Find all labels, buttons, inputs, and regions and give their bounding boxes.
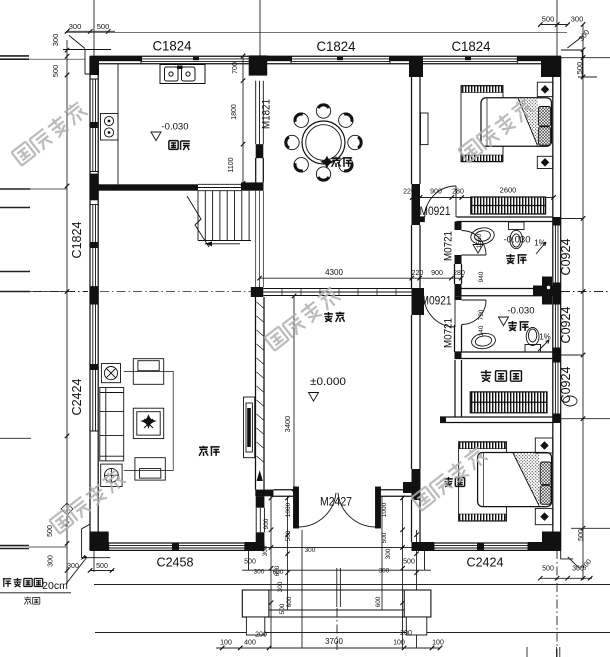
svg-text:C0924: C0924 xyxy=(558,239,573,276)
bed2 bench outline xyxy=(459,442,507,521)
window C2458 bottom xyxy=(109,543,245,550)
left wall window C2424 xyxy=(90,304,98,431)
svg-text:300: 300 xyxy=(262,545,269,556)
left wall window C1824 xyxy=(90,204,98,286)
svg-text:900: 900 xyxy=(263,518,270,529)
porch pillar right base xyxy=(406,617,427,635)
bath partition wall vertical xyxy=(455,222,462,353)
svg-text:790: 790 xyxy=(478,309,485,320)
bath2 slope arrow xyxy=(538,340,549,351)
svg-text:140: 140 xyxy=(478,325,485,336)
watermark D xyxy=(48,468,126,535)
room label dining xyxy=(332,157,353,167)
watermark A xyxy=(10,100,88,167)
left wall kitchen window xyxy=(90,79,98,172)
svg-text:280: 280 xyxy=(452,189,464,196)
kitchen dim line vertical xyxy=(242,56,244,184)
top-left parapet step xyxy=(63,36,111,75)
svg-text:1100: 1100 xyxy=(228,157,235,172)
leader line for protruding wall note xyxy=(0,555,87,593)
svg-text:500: 500 xyxy=(285,530,292,541)
level mark bath1 xyxy=(473,245,483,254)
stairs xyxy=(187,191,251,247)
top-left dim line xyxy=(67,30,115,32)
left wall stub y438 xyxy=(0,437,31,439)
dimension number labels rotated xyxy=(47,28,593,615)
svg-text:500: 500 xyxy=(381,532,388,543)
flue pier right wall xyxy=(553,283,561,304)
right exterior wall face lines xyxy=(553,56,561,550)
svg-text:M0721: M0721 xyxy=(443,318,455,348)
porch center axis marks xyxy=(337,568,341,652)
armchair bottom xyxy=(135,458,165,480)
svg-text:C1824: C1824 xyxy=(317,38,356,54)
watermark B xyxy=(457,97,535,164)
diamond marker left dim line xyxy=(61,503,73,515)
svg-text:300: 300 xyxy=(69,22,82,31)
left wall stub pair top xyxy=(0,56,29,59)
svg-text:500: 500 xyxy=(542,566,554,573)
bottom wall pier at porch left xyxy=(245,542,265,550)
svg-text:300: 300 xyxy=(385,548,392,559)
note protruding wall text xyxy=(3,578,43,587)
axis line left top xyxy=(93,0,95,56)
mid axis dash-dot left xyxy=(0,291,88,293)
svg-text:500: 500 xyxy=(578,529,585,541)
mid axis dash-dot living xyxy=(100,291,254,293)
watermark E xyxy=(410,445,488,512)
top exterior wall solid segments xyxy=(98,56,542,61)
svg-text:220: 220 xyxy=(403,189,415,196)
bath1 slope arrow xyxy=(536,242,546,254)
room label master bedroom xyxy=(444,477,465,487)
pier kitchen wall at axis xyxy=(251,287,263,297)
svg-text:1000: 1000 xyxy=(381,502,388,517)
watermark C xyxy=(263,285,341,352)
kitchen south wall xyxy=(98,182,263,190)
right ext y419 xyxy=(561,418,610,420)
svg-text:1000: 1000 xyxy=(285,502,292,517)
bottom wall pier at porch right xyxy=(412,542,435,550)
bottom dim line xyxy=(216,647,440,649)
kitchen counter edge xyxy=(117,64,119,185)
svg-text:1560: 1560 xyxy=(476,233,483,248)
left wall stub pair bottom xyxy=(0,546,29,549)
top-right parapet step xyxy=(561,36,582,77)
bottom wall face lines left part xyxy=(90,543,264,550)
left wall stub y189 xyxy=(0,188,30,190)
right wall window C0924 bath1 xyxy=(553,225,561,283)
svg-text:M2427: M2427 xyxy=(320,497,352,509)
bottom-left corner column xyxy=(90,532,109,551)
svg-text:600: 600 xyxy=(274,565,281,576)
door M0721 bath2 leaf+arc xyxy=(462,300,487,325)
room label hall xyxy=(324,312,345,322)
bottom-right parapet step xyxy=(561,550,580,568)
top-right dim line xyxy=(540,24,568,26)
svg-text:300: 300 xyxy=(571,15,584,24)
axis line right top xyxy=(556,0,558,56)
porch pillar left xyxy=(242,590,269,617)
right wall pier below cloak window xyxy=(553,414,561,423)
left wall stub y271 xyxy=(0,271,30,273)
right ext y355 xyxy=(561,354,582,356)
flue cross on right wall xyxy=(533,277,561,305)
TV wall end pointer xyxy=(257,470,263,481)
dining label flower xyxy=(320,156,334,169)
svg-text:300: 300 xyxy=(48,555,55,567)
svg-text:300: 300 xyxy=(254,569,265,576)
bedroom1 bed xyxy=(481,98,552,147)
bottom wall right part face lines xyxy=(412,543,562,550)
porch pillar right xyxy=(404,590,431,617)
svg-text:M0921: M0921 xyxy=(421,296,452,308)
top long dim line xyxy=(67,32,567,34)
dining table xyxy=(302,121,345,164)
svg-text:100: 100 xyxy=(432,640,444,647)
svg-text:500: 500 xyxy=(575,62,584,75)
svg-text:600: 600 xyxy=(375,596,382,607)
bath2 south wall xyxy=(455,352,562,359)
window C2424 bottom xyxy=(434,543,528,550)
svg-text:C1824: C1824 xyxy=(69,222,84,259)
svg-text:-0.030: -0.030 xyxy=(504,235,531,246)
svg-text:C2458: C2458 xyxy=(157,555,194,570)
svg-text:1%: 1% xyxy=(539,333,551,342)
door and window code labels xyxy=(69,99,573,509)
bottom long line 1 xyxy=(94,584,610,586)
top wall face lines xyxy=(90,56,561,64)
corridor dim line row1 xyxy=(412,197,554,199)
right wall pier above bath window xyxy=(553,217,561,225)
svg-text:500: 500 xyxy=(403,559,415,566)
svg-text:700: 700 xyxy=(232,62,239,74)
bath2 toilet xyxy=(525,328,541,353)
bed2 nightstand top xyxy=(535,438,553,453)
porch dim vertical b xyxy=(287,496,289,610)
armchair top xyxy=(133,359,163,385)
level annotation labels xyxy=(42,122,551,593)
window C0924 bath2 xyxy=(553,304,561,348)
right wall pier xyxy=(553,348,561,362)
pier left of bath door wall xyxy=(455,284,462,296)
bottom-right corner column xyxy=(542,532,561,551)
svg-text:C1824: C1824 xyxy=(452,38,491,54)
svg-text:2600: 2600 xyxy=(500,186,517,195)
svg-text:280: 280 xyxy=(453,270,465,277)
note yu tong text xyxy=(24,597,39,605)
hall north wall opening band xyxy=(263,289,411,296)
TV cabinet xyxy=(244,397,255,458)
window C1824 top kitchen band xyxy=(141,56,251,64)
column top-right corner xyxy=(541,56,561,77)
level mark bath2 xyxy=(499,317,509,326)
coffee table xyxy=(133,408,163,438)
hall dim line 3400 xyxy=(293,296,295,489)
svg-text:20cm: 20cm xyxy=(42,580,68,592)
svg-text:500: 500 xyxy=(47,525,54,537)
porch steps xyxy=(242,548,431,617)
dining/bedroom east wall xyxy=(403,77,424,542)
cloakroom south wall xyxy=(440,417,561,423)
porch pillar left base xyxy=(246,617,264,635)
left wall pier at axis xyxy=(90,287,98,304)
column top dining/bedroom xyxy=(409,56,423,77)
bedroom1 nightstand bottom xyxy=(537,156,553,168)
bottom long line 2 xyxy=(95,632,610,634)
right ext y528 xyxy=(571,527,610,529)
door M0921 bedroom1 leaf+arc xyxy=(425,186,456,217)
svg-text:500: 500 xyxy=(244,559,256,566)
mid axis dash-dot right xyxy=(561,291,610,293)
bottom-left parapet step xyxy=(82,524,111,558)
svg-text:900: 900 xyxy=(431,270,443,277)
right ext line at y58 xyxy=(561,57,610,59)
bedroom1 south wall xyxy=(420,217,553,222)
axis line left below wall xyxy=(93,550,95,572)
svg-text:300: 300 xyxy=(51,34,60,47)
svg-text:220: 220 xyxy=(412,270,424,277)
room label cloakroom xyxy=(481,370,522,382)
side table 1 xyxy=(101,364,120,383)
right ext y219 xyxy=(561,218,582,220)
bedroom1 bed bench outline xyxy=(461,86,503,162)
svg-text:3400: 3400 xyxy=(283,416,292,433)
svg-text:1%: 1% xyxy=(534,239,546,248)
level mark kitchen xyxy=(151,132,161,141)
svg-text:200: 200 xyxy=(400,630,412,637)
bedroom1 nightstand top xyxy=(537,82,553,96)
svg-text:M0721: M0721 xyxy=(443,231,455,261)
dining dim line row2 xyxy=(260,277,462,279)
svg-text:100: 100 xyxy=(220,640,232,647)
bath1 washbasin xyxy=(469,226,495,246)
porch dim vertical c xyxy=(301,530,303,648)
svg-text:3700: 3700 xyxy=(325,637,343,646)
window C1824 top dining band xyxy=(291,56,390,64)
cloakroom wardrobe xyxy=(470,392,547,413)
room label bath1 xyxy=(506,254,527,264)
level mark hall xyxy=(309,393,319,402)
kitchen/dining wall xyxy=(256,81,264,183)
porch dim vertical d xyxy=(381,496,383,610)
svg-text:-0.030: -0.030 xyxy=(162,122,189,133)
room label living xyxy=(199,446,220,456)
svg-text:500: 500 xyxy=(279,603,286,614)
svg-text:300: 300 xyxy=(67,563,79,570)
svg-text:600: 600 xyxy=(286,596,293,607)
bottom-left dim line xyxy=(90,570,114,572)
bottom-right dim line xyxy=(540,577,592,579)
left dimension line vertical xyxy=(66,40,68,584)
axis line mid top xyxy=(259,0,261,56)
sofa xyxy=(100,388,124,461)
porch dim vertical e xyxy=(402,496,404,648)
svg-text:200: 200 xyxy=(255,632,267,639)
hall north wall right solid part xyxy=(462,289,553,296)
window C0924 cloakroom xyxy=(553,362,561,414)
living rug outline xyxy=(124,372,174,471)
left wall stub y207 xyxy=(0,207,30,209)
svg-text:4300: 4300 xyxy=(325,268,343,277)
side table 2 xyxy=(101,464,122,486)
door M2427 double leaves xyxy=(294,487,381,528)
left exterior wall face lines xyxy=(90,56,98,550)
svg-text:C0924: C0924 xyxy=(558,307,573,344)
door M0721 bath1 leaf+arc xyxy=(462,231,487,256)
right small dim stub xyxy=(578,76,597,78)
bedroom1 wardrobe xyxy=(471,197,546,214)
svg-text:300: 300 xyxy=(379,568,390,575)
svg-text:±0.000: ±0.000 xyxy=(310,376,346,388)
room label kitchen xyxy=(169,141,190,150)
bottom edge axis ticks xyxy=(527,647,560,657)
axis line right bottom dash-dot xyxy=(556,550,558,657)
right dimension line vertical xyxy=(582,25,584,580)
svg-text:500: 500 xyxy=(96,563,108,570)
bed2 nightstand bottom xyxy=(535,508,553,524)
grid bubble right xyxy=(563,396,577,406)
cloakroom west wall xyxy=(455,360,462,417)
svg-text:C2424: C2424 xyxy=(467,555,504,570)
svg-text:500: 500 xyxy=(51,65,60,78)
svg-text:500: 500 xyxy=(97,22,110,31)
bed2 master bed xyxy=(478,453,552,507)
svg-text:C0924: C0924 xyxy=(558,367,573,404)
svg-text:C1824: C1824 xyxy=(153,38,192,54)
svg-text:900: 900 xyxy=(430,189,442,196)
dining chairs xyxy=(285,104,362,181)
stair-side wall below kitchen xyxy=(256,191,264,287)
porch dim vertical f xyxy=(416,530,418,648)
column top-left corner xyxy=(90,56,99,75)
svg-text:100: 100 xyxy=(393,640,405,647)
window C1824 top bedroom band xyxy=(420,56,517,64)
svg-text:-0.030: -0.030 xyxy=(508,306,535,317)
kitchen stove xyxy=(101,114,119,141)
porch dim vertical a xyxy=(270,496,272,648)
bath1 toilet xyxy=(509,222,525,249)
column top kitchen/dining xyxy=(249,55,268,75)
bath2 washbasin xyxy=(471,332,497,350)
TV feature wall (hall west wall) xyxy=(255,297,273,549)
svg-text:500: 500 xyxy=(542,15,555,24)
door M0921 hall leaf+arc xyxy=(424,296,455,327)
svg-text:C2424: C2424 xyxy=(69,379,84,416)
svg-text:M1821: M1821 xyxy=(261,99,273,129)
bedroom1 wall cabinet xyxy=(421,113,429,145)
svg-text:M0921: M0921 xyxy=(420,206,451,218)
svg-text:300: 300 xyxy=(277,581,284,592)
room label bath2 xyxy=(508,321,529,331)
bottom wall pier right of window xyxy=(528,542,544,550)
svg-text:300: 300 xyxy=(305,547,316,554)
svg-text:400: 400 xyxy=(244,640,256,647)
svg-text:940: 940 xyxy=(478,271,485,282)
left wall stub y291 xyxy=(0,291,30,293)
left wall pier below kitchen xyxy=(90,174,98,201)
svg-text:1800: 1800 xyxy=(231,104,238,120)
kitchen sink unit xyxy=(160,65,205,84)
hall south wall with entry xyxy=(255,490,411,497)
